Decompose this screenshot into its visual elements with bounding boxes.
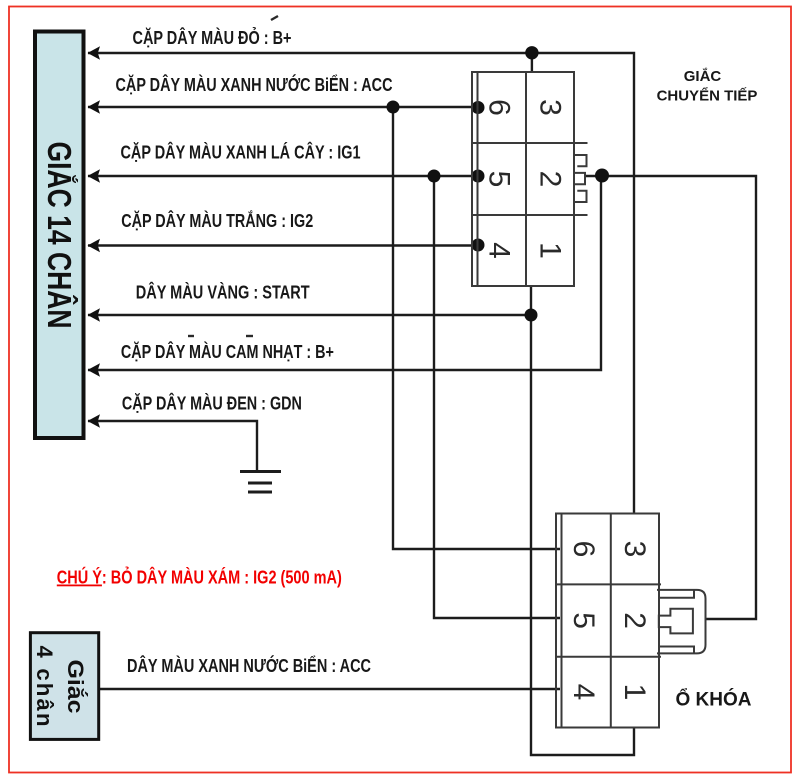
- svg-text:4 chân: 4 chân: [32, 646, 57, 727]
- svg-text:CẶP DÂY MÀU ĐEN : GDN: CẶP DÂY MÀU ĐEN : GDN: [122, 393, 302, 414]
- svg-text:CẶP DÂY MÀU XANH NƯỚC BiỂN : A: CẶP DÂY MÀU XANH NƯỚC BiỂN : ACC: [116, 74, 393, 95]
- svg-text:5: 5: [567, 612, 600, 629]
- svg-text:2: 2: [534, 171, 567, 188]
- svg-text:3: 3: [534, 99, 567, 116]
- svg-text:4: 4: [567, 684, 600, 701]
- svg-text:3: 3: [618, 541, 651, 558]
- svg-text:4: 4: [483, 242, 516, 259]
- svg-text:1: 1: [534, 242, 567, 259]
- svg-text:CHUYỂN TIẾP: CHUYỂN TIẾP: [657, 87, 758, 105]
- svg-text:DÂY MÀU XANH NƯỚC BiỂN : ACC: DÂY MÀU XANH NƯỚC BiỂN : ACC: [127, 655, 371, 676]
- svg-text:CẶP DÂY MÀU XANH LÁ CÂY : IG1: CẶP DÂY MÀU XANH LÁ CÂY : IG1: [121, 142, 361, 163]
- svg-text:CẶP DÂY MÀU CAM NHẠT : B+: CẶP DÂY MÀU CAM NHẠT : B+: [121, 341, 334, 362]
- svg-text:CHÚ Ý: BỎ DÂY MÀU XÁM : IG2 (5: CHÚ Ý: BỎ DÂY MÀU XÁM : IG2 (500 mA): [57, 567, 342, 588]
- svg-text:6: 6: [483, 99, 516, 116]
- svg-text:Giắc: Giắc: [63, 660, 88, 714]
- svg-text:1: 1: [618, 684, 651, 701]
- svg-text:GIẮC 14 CHÂN: GIẮC 14 CHÂN: [41, 142, 78, 329]
- svg-text:GIẮC: GIẮC: [684, 67, 722, 85]
- svg-text:CẶP DÂY MÀU TRẮNG : IG2: CẶP DÂY MÀU TRẮNG : IG2: [121, 210, 313, 231]
- svg-text:2: 2: [618, 612, 651, 629]
- svg-text:DÂY MÀU VÀNG : START: DÂY MÀU VÀNG : START: [136, 282, 310, 303]
- svg-text:5: 5: [483, 171, 516, 188]
- svg-text:Ổ KHÓA: Ổ KHÓA: [676, 689, 752, 711]
- svg-text:CẶP DÂY MÀU ĐỎ : B+: CẶP DÂY MÀU ĐỎ : B+: [133, 27, 292, 48]
- svg-text:6: 6: [567, 541, 600, 558]
